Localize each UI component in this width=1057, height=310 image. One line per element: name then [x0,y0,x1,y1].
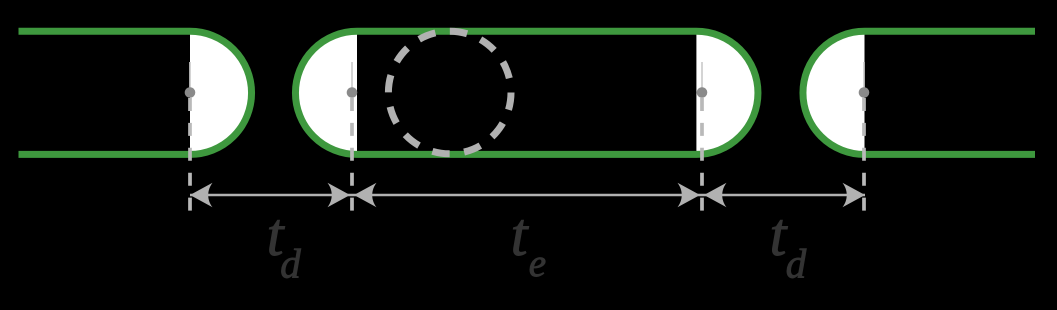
meniscus cap white fill (right slug, left end) [803,31,865,154]
label t_e [511,202,546,285]
arrowhead left end of t_d1 (points left) [190,183,213,208]
arrowhead right end of t_e (points right) [678,183,701,208]
svg-text:e: e [529,242,546,285]
arrowhead right end of t_d2 (points right) [843,183,866,208]
svg-text:t: t [511,202,530,269]
arrowhead left end of t_d2 (points left) [704,183,727,208]
pin needle 3 [701,62,703,93]
svg-text:d: d [786,241,807,287]
meniscus cap white fill (left slug, right end) [190,31,252,154]
dimension shaft [190,194,865,196]
pin needle 1 [189,62,191,93]
middle slug wall (closed green capsule) [295,31,758,154]
dashed bubble circle [388,31,511,154]
arrowhead right end of t_d1 (points right) [328,183,351,208]
dashed extension line 1 [188,98,192,211]
meniscus cap white fill (middle slug, left end) [295,31,357,154]
label t_d (second) [770,202,807,287]
pin needle 2 [351,62,353,93]
pin needle 4 [863,62,865,93]
left slug wall (green outline with rounded right cap) [19,31,252,154]
right slug wall (green outline with rounded left cap) [803,31,1035,154]
pin dot 2 [347,87,358,98]
label t_d (first) [267,202,302,287]
pin dot 3 [697,87,708,98]
dashed extension line 4 [862,98,866,211]
arrowhead left end of t_e (points left) [354,183,377,208]
svg-text:d: d [280,241,301,287]
meniscus cap white fill (middle slug, right end) [696,31,758,154]
pin dot 1 [185,87,196,98]
dashed extension line 3 [700,98,704,211]
pin dot 4 [859,87,870,98]
dashed extension line 2 [350,98,354,211]
